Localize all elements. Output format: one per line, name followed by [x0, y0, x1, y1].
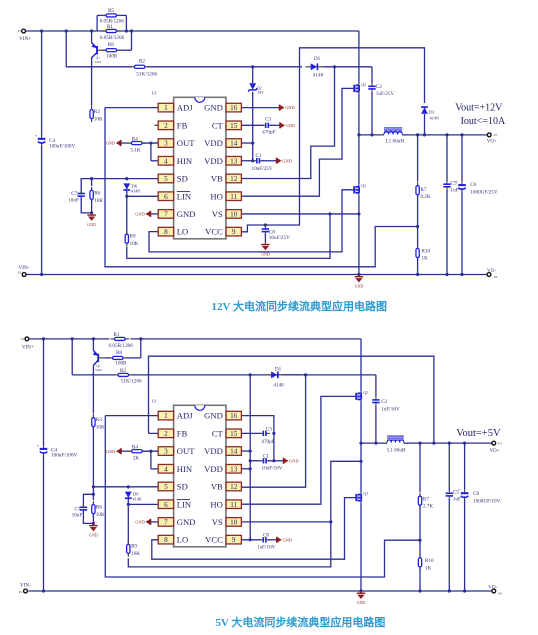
- wire OUT to HIN riser: [150, 143, 152, 161]
- svg-text:GND: GND: [89, 533, 98, 538]
- svg-text:U1: U1: [152, 91, 157, 96]
- wire VCC pin9 to D3 rail: [241, 48, 424, 232]
- svg-text:8.2K: 8.2K: [420, 194, 430, 200]
- ground C1 arrow: [277, 158, 292, 164]
- wire switch node to L1 (5V): [361, 442, 387, 444]
- ground C8 arrow (5V): [277, 537, 292, 543]
- wire LO pin8 to Q3 gate: [149, 190, 354, 252]
- U1 pin 1 (ADJ): [158, 411, 193, 421]
- junction dot VS branch (5V): [329, 520, 332, 523]
- svg-text:10K: 10K: [96, 424, 105, 430]
- svg-text:Q2: Q2: [363, 391, 368, 395]
- label R6: [94, 190, 103, 203]
- svg-text:C1: C1: [255, 153, 261, 159]
- label C8: [269, 229, 290, 240]
- svg-text:U1: U1: [152, 399, 157, 404]
- svg-text:VDD: VDD: [204, 464, 223, 474]
- junction dots bootstrap rail (5V): [249, 373, 308, 376]
- svg-text:4148: 4148: [313, 73, 324, 79]
- resistor R8: [102, 49, 121, 52]
- wire output to R7 (5V): [419, 443, 421, 492]
- resistor R3: [90, 106, 93, 122]
- svg-text:VS: VS: [212, 209, 223, 219]
- svg-text:R4: R4: [132, 136, 138, 142]
- junction dots main rail (5V): [42, 337, 142, 340]
- svg-text:P1: P1: [18, 29, 22, 33]
- wire output to C5 (5V): [448, 443, 450, 490]
- svg-text:1: 1: [164, 412, 168, 420]
- ground pin7 arrow: [135, 211, 150, 217]
- svg-text:P1: P1: [21, 337, 25, 341]
- junction dot R6/C7 ground (5V): [92, 522, 95, 525]
- wire C6 to rail: [461, 192, 463, 275]
- svg-text:GND: GND: [289, 458, 298, 463]
- label C4 (5V): [51, 447, 77, 458]
- svg-text:C7: C7: [71, 191, 77, 197]
- wire D6 bottom lead (5V): [127, 499, 129, 504]
- junction dots on main rail: [40, 29, 133, 32]
- svg-text:Q2: Q2: [361, 83, 366, 87]
- svg-text:R9: R9: [130, 234, 136, 240]
- svg-text:CT: CT: [212, 120, 224, 130]
- svg-text:GND: GND: [204, 411, 223, 421]
- U1 pin 13 (VDD): [204, 156, 241, 166]
- junction dot divider: [416, 225, 419, 228]
- U1 pin 7 (GND): [158, 517, 195, 527]
- wire VDD vertical: [252, 92, 254, 161]
- wire D6 top lead: [126, 179, 128, 181]
- svg-text:16: 16: [230, 104, 238, 112]
- svg-text:+: +: [35, 133, 38, 138]
- capacitor C3: [262, 123, 273, 128]
- junction dots SD line (5V): [92, 485, 130, 488]
- svg-text:Q3: Q3: [363, 492, 368, 496]
- svg-text:GND: GND: [282, 158, 291, 163]
- svg-text:4148: 4148: [273, 382, 284, 388]
- diode D1: [306, 63, 324, 70]
- U1 pin 5 (SD): [158, 174, 188, 184]
- wire VDD to C1 (5V): [250, 460, 261, 462]
- svg-text:VCC: VCC: [205, 535, 223, 545]
- svg-text:10nF: 10nF: [72, 513, 83, 519]
- svg-text:11: 11: [230, 501, 237, 509]
- svg-text:3: 3: [164, 140, 168, 148]
- wire C1 to GND (5V): [268, 460, 283, 462]
- ground rail: [355, 275, 364, 289]
- wire main to Q2 drain (5V): [360, 339, 362, 391]
- svg-text:GND: GND: [285, 105, 294, 110]
- ground C1 arrow (5V): [284, 458, 299, 464]
- svg-text:51K/1206: 51K/1206: [121, 378, 142, 384]
- wire ADJ pin1: [105, 107, 158, 109]
- wire D1 to C2 corner: [324, 66, 373, 68]
- svg-text:CT: CT: [212, 428, 224, 438]
- U1 pin 8 (LO): [158, 227, 188, 237]
- transistor Q2 (5V): [356, 391, 368, 402]
- wire GND to R4: [121, 142, 132, 144]
- svg-text:0.05R/1206: 0.05R/1206: [100, 35, 125, 41]
- wire VDD vertical (5V): [249, 375, 251, 540]
- wire C4 to rail (5V): [43, 455, 45, 591]
- wire R5 top right: [117, 14, 127, 16]
- svg-text:2K: 2K: [133, 455, 140, 461]
- junction dot R6/C7 ground: [90, 211, 93, 214]
- svg-text:C1: C1: [263, 453, 269, 459]
- junction dot VS at switch column: [357, 212, 360, 215]
- wire R2 branch drop: [65, 31, 67, 67]
- wire LIN line: [127, 195, 158, 197]
- wire pin13 VDD to C1: [241, 160, 255, 162]
- svg-text:1K: 1K: [422, 256, 429, 262]
- svg-text:VCC: VCC: [205, 227, 223, 237]
- transistor Q1: [92, 43, 103, 64]
- svg-text:OUT: OUT: [177, 446, 195, 456]
- U1 pin 2 (FB): [158, 120, 187, 130]
- svg-text:6: 6: [164, 193, 168, 201]
- svg-text:12: 12: [230, 483, 238, 491]
- wire VB pin12 to bootstrap node: [241, 67, 334, 179]
- svg-text:7: 7: [164, 211, 168, 219]
- svg-text:Q3: Q3: [361, 184, 366, 188]
- wire switch node to Q3 drain (5V): [360, 443, 362, 492]
- junction dot C3 right (5V): [272, 432, 275, 435]
- ground R6/C7 (5V): [89, 523, 98, 537]
- svg-text:+: +: [455, 179, 458, 184]
- svg-text:15: 15: [230, 122, 238, 130]
- svg-text:13: 13: [230, 157, 238, 165]
- svg-text:C8: C8: [263, 533, 269, 539]
- svg-text:HIN: HIN: [177, 464, 193, 474]
- wire L1 to VO+: [402, 134, 487, 136]
- wire C5 to rail (5V): [448, 499, 450, 591]
- svg-text:P2: P2: [18, 270, 22, 274]
- svg-text:10K: 10K: [94, 116, 103, 122]
- wire Q2 source to switch node: [358, 94, 360, 135]
- svg-text:LIN: LIN: [177, 191, 192, 201]
- svg-text:14: 14: [230, 448, 238, 456]
- wire pin9 VCC (5V): [241, 539, 261, 541]
- wire VS down to R9 (5V): [128, 522, 330, 567]
- svg-text:D1: D1: [275, 367, 282, 373]
- terminal P6 VO-: [487, 273, 491, 277]
- label R3 (5V): [96, 417, 105, 430]
- wire to R2 (5V): [72, 374, 115, 376]
- svg-text:P5: P5: [498, 441, 502, 445]
- U1 pin 3 (OUT): [158, 446, 195, 456]
- wire pin7 stub: [151, 213, 159, 215]
- transistor Q2: [354, 83, 366, 94]
- capacitor C7 (5V): [80, 503, 87, 514]
- capacitor C5 (5V): [446, 489, 453, 500]
- svg-text:10uF/25V: 10uF/25V: [251, 166, 272, 172]
- capacitor C6: [455, 179, 466, 192]
- svg-text:GND: GND: [283, 537, 292, 542]
- svg-text:5V 大电流同步续流典型应用电路图: 5V 大电流同步续流典型应用电路图: [215, 615, 385, 629]
- svg-text:FB: FB: [177, 428, 188, 438]
- wire LO pin8 to Q3 gate (5V): [152, 498, 356, 560]
- svg-text:GND: GND: [135, 212, 144, 217]
- svg-text:4: 4: [164, 465, 168, 473]
- junction dot OUT/HIN tie (5V): [149, 450, 152, 453]
- svg-text:R6: R6: [96, 505, 102, 511]
- svg-text:VS: VS: [212, 517, 223, 527]
- wire D1 to C2 corner (5V): [284, 374, 376, 376]
- svg-text:4148: 4148: [430, 116, 440, 121]
- capacitor C6 (5V): [458, 487, 469, 500]
- transistor Q1 (5V): [93, 350, 104, 372]
- capacitor C8: [262, 225, 269, 236]
- svg-text:14: 14: [230, 140, 238, 148]
- wire C2 top lead: [371, 67, 373, 83]
- wire output to C6: [461, 135, 463, 182]
- terminal P2 VIN-: [22, 273, 26, 277]
- svg-text:VB: VB: [211, 174, 223, 184]
- wire switch node to L1: [359, 134, 384, 136]
- junction dots on output line: [416, 133, 464, 136]
- capacitor C2 (5V): [372, 396, 379, 407]
- svg-text:R1: R1: [113, 332, 119, 338]
- svg-text:HO: HO: [210, 499, 222, 509]
- svg-text:HO: HO: [210, 191, 222, 201]
- svg-text:R8: R8: [116, 350, 122, 356]
- svg-text:100uF/100V: 100uF/100V: [51, 453, 77, 459]
- wire pin7 stub (5V): [151, 521, 159, 523]
- svg-text:10K: 10K: [96, 512, 105, 518]
- wire zener top lead: [252, 67, 254, 83]
- wire R7 to R10: [417, 195, 419, 249]
- resistor R6 (5V): [92, 501, 95, 517]
- wire C7 bottom to R6: [81, 198, 91, 213]
- label C2: [376, 84, 395, 97]
- wire VB pin12 to bootstrap node (5V): [241, 375, 305, 487]
- wire VS up to switch node (5V): [331, 461, 361, 522]
- wire C2 bottom lead: [371, 92, 373, 135]
- U1 pin 10 (VS): [212, 517, 242, 527]
- svg-text:R2: R2: [120, 368, 126, 374]
- svg-text:GND: GND: [286, 123, 295, 128]
- resistor R5: [102, 14, 121, 17]
- U1 pin 3 (OUT): [158, 138, 195, 148]
- svg-text:GND: GND: [87, 222, 96, 227]
- svg-text:5: 5: [164, 175, 168, 183]
- wire pin15 CT to C3: [241, 124, 263, 126]
- junction dots switch node: [357, 133, 373, 136]
- svg-text:R7: R7: [420, 187, 426, 193]
- wire R2 branch drop (5V): [71, 339, 73, 375]
- label C6: [470, 182, 498, 195]
- wire C8 bottom lead: [264, 234, 266, 243]
- wire VIN+ rail right (5V): [130, 338, 361, 340]
- svg-text:5: 5: [164, 483, 168, 491]
- U1 pin 16 (GND): [204, 103, 241, 113]
- wire HO pin11 to Q2 gate (5V): [241, 396, 355, 504]
- U1 pin 6 (LIN): [158, 191, 192, 201]
- wire pin14 VDD: [241, 142, 252, 144]
- svg-text:100R: 100R: [115, 360, 127, 366]
- diode D6 (5V): [125, 492, 132, 499]
- resistor R2 (5V): [114, 373, 133, 376]
- label C6 (5V): [473, 491, 501, 504]
- terminal P6 VO- (5V): [492, 589, 496, 593]
- svg-text:VIN+: VIN+: [22, 345, 34, 351]
- resistor R7 (5V): [418, 493, 421, 509]
- wire R6 bottom: [91, 199, 93, 213]
- label C2 (5V): [381, 399, 400, 412]
- zener D2: [248, 83, 257, 91]
- wire R2 left segment: [66, 66, 132, 68]
- ground pin16 arrow: [280, 105, 295, 111]
- label R10 (5V): [425, 558, 434, 571]
- svg-text:P2: P2: [19, 590, 23, 594]
- U1 pin 11 (HO): [210, 191, 241, 201]
- wire VS pin10 to switch node: [241, 213, 359, 215]
- terminal P5 VO+ (5V): [492, 441, 496, 445]
- svg-text:9: 9: [232, 228, 236, 236]
- resistor R1: [102, 29, 121, 32]
- wire D6 top lead (5V): [127, 487, 129, 489]
- svg-text:VIN-: VIN-: [20, 583, 31, 589]
- svg-text:HIN: HIN: [177, 156, 193, 166]
- op-amp U1 (PWM controller IC, 12V circuit): [152, 91, 226, 239]
- svg-text:+: +: [37, 443, 40, 448]
- wire HO pin11 to Q2 gate: [241, 88, 353, 196]
- wire R5 right stub: [125, 15, 127, 31]
- svg-text:1uF/16V: 1uF/16V: [257, 544, 276, 550]
- capacitor C3 (5V): [259, 431, 270, 436]
- wire pin2 FB stub: [154, 124, 158, 126]
- wire R2 to D1: [147, 66, 302, 68]
- svg-text:1: 1: [164, 104, 168, 112]
- svg-text:C6: C6: [473, 491, 479, 497]
- resistor R1 (5V): [111, 337, 130, 340]
- svg-text:2: 2: [164, 430, 168, 438]
- svg-text:12V 大电流同步续流典型应用电路图: 12V 大电流同步续流典型应用电路图: [212, 299, 388, 313]
- U1 pin 9 (VCC): [205, 535, 241, 545]
- wire R8 riser (5V): [140, 339, 142, 358]
- U1 pin 8 (LO): [158, 535, 188, 545]
- svg-text:470pF: 470pF: [261, 439, 274, 445]
- svg-text:GND: GND: [106, 449, 115, 454]
- wire ADJ feedback run (5V): [105, 416, 420, 577]
- svg-text:15: 15: [230, 430, 238, 438]
- wire SD to R6: [91, 179, 93, 186]
- svg-text:C7: C7: [74, 507, 80, 513]
- op-amp U1 (PWM controller IC, 5V circuit): [152, 399, 226, 547]
- svg-text:SD: SD: [177, 174, 188, 184]
- wire C3 to GND: [270, 124, 280, 126]
- wire R5 top left: [97, 14, 106, 16]
- capacitor C8 (5V): [259, 537, 270, 542]
- resistor R3 (5V): [92, 414, 95, 430]
- svg-text:10uF/25V: 10uF/25V: [269, 235, 290, 241]
- junction dots on negative rail: [40, 273, 464, 276]
- capacitor C1: [253, 158, 264, 163]
- svg-text:10K: 10K: [131, 551, 140, 557]
- resistor R7: [416, 182, 419, 198]
- label R9: [130, 234, 139, 247]
- capacitor C1 (5V): [260, 458, 271, 463]
- wire FB riser to pin2: [149, 432, 159, 434]
- resistor R4: [127, 141, 146, 144]
- svg-text:P6: P6: [494, 275, 498, 279]
- terminal P1 VIN+ (5V): [25, 337, 29, 341]
- svg-text:D3: D3: [429, 109, 435, 114]
- svg-text:9: 9: [232, 536, 236, 544]
- svg-text:VO+: VO+: [490, 449, 500, 454]
- inductor L1 (5V): [382, 436, 409, 443]
- wire R2 to D1 (5V): [131, 374, 302, 376]
- diode D3: [421, 107, 428, 114]
- svg-text:R1: R1: [107, 24, 113, 30]
- svg-text:4: 4: [164, 157, 168, 165]
- wire FB pin2 to VO+ sense: [149, 356, 434, 443]
- U1 pin 13 (VDD): [204, 464, 241, 474]
- U1 pin 16 (GND): [204, 411, 241, 421]
- U1 pin 7 (GND): [158, 209, 195, 219]
- svg-text:51K/1206: 51K/1206: [136, 71, 157, 77]
- svg-text:R7: R7: [423, 496, 429, 502]
- svg-text:GND: GND: [177, 517, 196, 527]
- wire output to R7: [417, 135, 419, 182]
- svg-text:R2: R2: [139, 59, 145, 65]
- wire R4 to pin3 (5V): [142, 450, 158, 452]
- svg-text:L1 60uH: L1 60uH: [387, 447, 406, 453]
- svg-text:1uF: 1uF: [451, 188, 459, 194]
- svg-text:R4: R4: [132, 444, 138, 450]
- svg-text:R6: R6: [94, 190, 100, 196]
- svg-text:VB: VB: [211, 482, 223, 492]
- svg-text:LO: LO: [177, 535, 188, 545]
- wire R8 riser: [131, 31, 133, 50]
- wire pin13 VDD (5V): [241, 468, 250, 470]
- svg-text:1000UF/25V: 1000UF/25V: [470, 189, 498, 195]
- wire R3 to SD (5V): [92, 427, 94, 487]
- inductor L1: [379, 128, 407, 135]
- ground C8: [261, 242, 270, 256]
- svg-text:1uF/25V: 1uF/25V: [376, 91, 395, 97]
- svg-text:VO+: VO+: [487, 140, 497, 145]
- wire ADJ feedback run: [105, 108, 418, 267]
- U1 pin 11 (HO): [210, 499, 241, 509]
- junction dots switch node (5V): [359, 442, 377, 445]
- ground R6/C7: [87, 213, 96, 227]
- wire SD to R6 (5V): [92, 487, 94, 500]
- svg-text:8: 8: [164, 228, 168, 236]
- resistor R8 (5V): [109, 356, 128, 359]
- resistor R4 (5V): [128, 450, 146, 453]
- junction dots negative rail (5V): [42, 589, 466, 592]
- wire OUT to HIN riser (5V): [150, 451, 152, 469]
- svg-text:6: 6: [164, 501, 168, 509]
- U1 pin 14 (VDD): [204, 446, 241, 456]
- svg-text:R9: R9: [131, 544, 137, 550]
- wire R8 to riser (5V): [125, 357, 140, 359]
- ground R4 arrow (5V): [106, 448, 121, 454]
- junction dots on SD line: [90, 177, 128, 180]
- wire VS branch to R9: [127, 214, 330, 258]
- wire Q3 source to rail (5V): [360, 503, 362, 591]
- U1 pin 9 (VCC): [205, 227, 241, 237]
- wire Q1 emitter lead (5V): [92, 339, 94, 351]
- svg-text:ADJ: ADJ: [177, 411, 193, 421]
- wire LIN to R9 (5V): [127, 504, 129, 544]
- U1 pin 15 (CT): [212, 428, 242, 438]
- svg-text:11: 11: [230, 193, 237, 201]
- U1 pin 4 (HIN): [158, 156, 193, 166]
- label R9 (5V): [131, 544, 140, 557]
- svg-text:12: 12: [230, 175, 238, 183]
- svg-text:C2: C2: [376, 84, 382, 90]
